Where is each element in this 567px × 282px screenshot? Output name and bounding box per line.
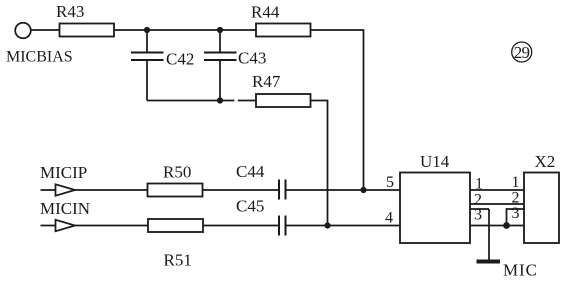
wire U14 pin3 to X2 pin3 [470, 225, 524, 227]
wire U14 pin2 to X2 pin2 [470, 203, 524, 205]
capacitor C44 [236, 162, 286, 200]
svg-text:2: 2 [512, 190, 520, 207]
wire R51 to C45 [203, 225, 279, 227]
svg-text:MICIP: MICIP [40, 163, 87, 182]
svg-text:MIC: MIC [503, 261, 538, 280]
wire R43 to R44 (top rail) [114, 29, 256, 31]
wire R50 to C44 [203, 189, 280, 191]
ground MIC [477, 260, 538, 280]
junction node X2 pin3 [503, 222, 510, 229]
junction node R47/MICIN [324, 222, 330, 228]
svg-text:29: 29 [514, 43, 530, 62]
wire C45 to U14 pin 4 [286, 225, 401, 227]
junction node at C43 top [217, 27, 223, 33]
resistor R47 [252, 72, 311, 107]
capacitor C42 [131, 30, 194, 101]
junction node R44/MICIP [360, 187, 366, 193]
svg-text:C45: C45 [236, 197, 264, 216]
svg-text:R50: R50 [163, 163, 191, 182]
svg-text:C43: C43 [238, 49, 266, 68]
wire to ground [488, 209, 490, 260]
wire R44 right, down to MICIP rail [311, 30, 364, 190]
resistor R51 [148, 219, 203, 270]
svg-text:1: 1 [512, 174, 520, 191]
terminal MICBIAS [15, 23, 31, 39]
svg-text:X2: X2 [535, 152, 556, 171]
svg-text:4: 4 [385, 210, 393, 227]
capacitor C43 [204, 30, 266, 101]
svg-text:C44: C44 [236, 162, 265, 181]
port MICIN [40, 199, 90, 231]
connector X2 [524, 152, 559, 243]
pin box X2 pin3 [507, 209, 525, 226]
svg-text:3: 3 [512, 205, 520, 222]
svg-text:5: 5 [386, 174, 394, 191]
svg-text:R43: R43 [56, 2, 84, 21]
port MICIP [40, 163, 87, 196]
svg-text:MICIN: MICIN [40, 199, 90, 218]
wire MICIP to R50 [75, 189, 148, 191]
wire capacitor bottom rail [147, 100, 256, 102]
junction node at C42 top [144, 27, 150, 33]
wire MICIN to R51 [75, 225, 148, 227]
svg-text:R47: R47 [252, 72, 281, 91]
wire C44 to U14 pin 5 [286, 189, 401, 191]
resistor R50 [148, 163, 203, 197]
op-amp/IC U14 [400, 152, 470, 243]
svg-text:C42: C42 [166, 50, 194, 69]
wire U14 pin1 to X2 pin1 [470, 189, 524, 191]
wire R47 right, down to MICIN rail [311, 101, 328, 226]
wire terminal to R43 [31, 29, 60, 31]
svg-text:1: 1 [475, 176, 483, 193]
svg-text:R51: R51 [164, 251, 192, 270]
pin box U14 pin3 [470, 208, 489, 210]
capacitor C45 [236, 197, 286, 236]
svg-text:MICBIAS: MICBIAS [6, 49, 73, 66]
resistor R44 [251, 3, 311, 37]
svg-text:R44: R44 [251, 3, 280, 22]
junction node at C43 bottom [217, 97, 223, 103]
svg-text:U14: U14 [420, 152, 450, 171]
resistor R43 [56, 2, 114, 37]
sheet note circled 29 [512, 42, 532, 62]
